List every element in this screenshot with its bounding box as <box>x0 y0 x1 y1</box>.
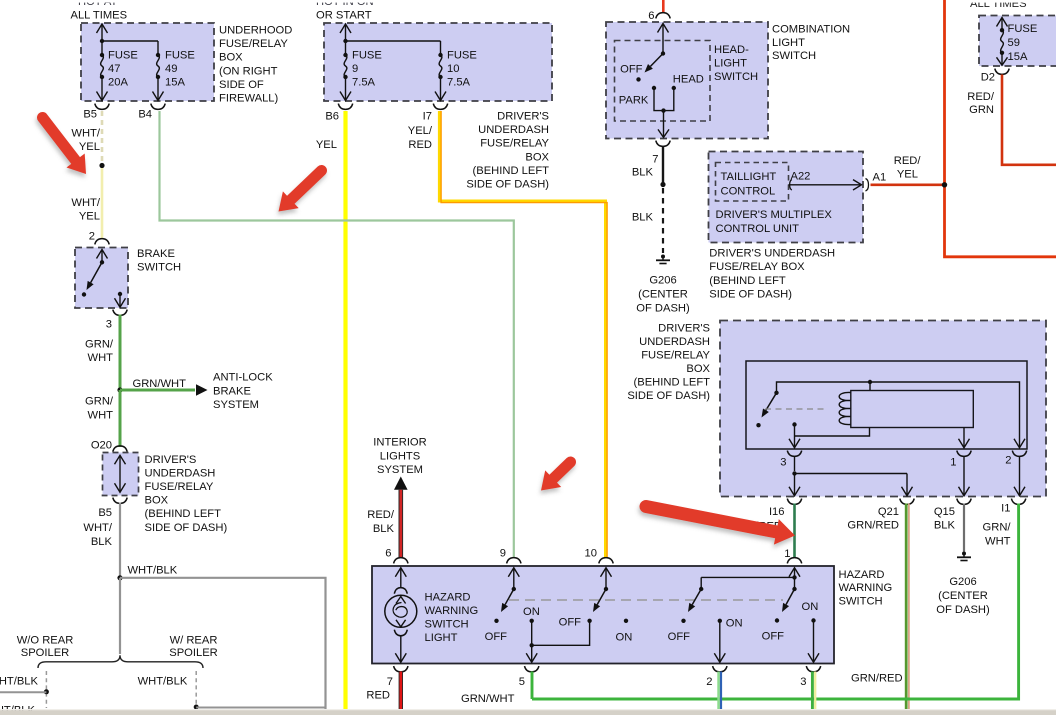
svg-text:UNDERDASH: UNDERDASH <box>639 336 710 348</box>
wire BLK (Q15) <box>963 504 965 552</box>
wire YEL from B6 <box>343 111 347 709</box>
svg-text:Q15: Q15 <box>934 506 955 518</box>
wire pin1 to connector <box>963 457 965 496</box>
pin B5 <box>95 104 109 110</box>
svg-text:LIGHTS: LIGHTS <box>380 450 420 462</box>
arrow interior lights system <box>394 477 408 490</box>
wire RED/BLK <box>398 490 403 558</box>
svg-text:OF DASH): OF DASH) <box>636 303 690 315</box>
hazard switch 1 (pin 9) <box>508 568 519 577</box>
pin B4 <box>151 104 165 110</box>
svg-text:RED/: RED/ <box>367 509 395 521</box>
contact OFF <box>636 77 640 81</box>
svg-text:(CENTER: (CENTER <box>638 288 688 300</box>
svg-text:FUSE/RELAY: FUSE/RELAY <box>145 481 214 493</box>
svg-text:LIGHT: LIGHT <box>714 58 747 70</box>
svg-text:3: 3 <box>106 319 112 331</box>
fuse 47 20A <box>101 41 103 55</box>
pin 2 relay <box>1012 451 1026 457</box>
svg-text:OFF: OFF <box>485 631 508 643</box>
node junction w/ spoiler <box>194 705 199 710</box>
driver multiplex control unit box <box>709 152 864 243</box>
pin 3 hazard <box>806 666 820 672</box>
svg-text:DRIVER'S: DRIVER'S <box>658 322 710 334</box>
svg-text:WHT: WHT <box>985 535 1011 547</box>
wire BLK <box>662 146 664 184</box>
svg-text:LIGHT: LIGHT <box>772 37 805 49</box>
svg-text:A22: A22 <box>791 171 811 183</box>
svg-text:7.5A: 7.5A <box>447 77 471 89</box>
svg-text:1: 1 <box>950 456 956 468</box>
svg-text:SWITCH: SWITCH <box>839 596 883 608</box>
annotation arrow 3 <box>541 462 571 491</box>
wire stub red at top <box>662 0 665 13</box>
wire WHT/YEL solid segment <box>101 168 104 238</box>
svg-text:SPOILER: SPOILER <box>169 647 218 659</box>
connector I16 <box>787 499 801 505</box>
svg-text:CONTROL UNIT: CONTROL UNIT <box>716 223 800 235</box>
svg-text:SIDE OF: SIDE OF <box>219 79 264 91</box>
svg-text:BLK: BLK <box>373 523 395 535</box>
svg-text:BRAKE: BRAKE <box>137 248 175 260</box>
svg-text:BOX: BOX <box>686 363 710 375</box>
svg-text:GRN/RED: GRN/RED <box>851 672 903 684</box>
node junction BLK <box>660 182 665 187</box>
wire WHT/BLK down to brace <box>119 578 121 654</box>
svg-text:YEL: YEL <box>79 211 100 223</box>
svg-text:WHT/: WHT/ <box>71 197 100 209</box>
pin I7 <box>433 104 447 110</box>
wire WHT/YEL dashed segment <box>101 111 104 163</box>
svg-text:2: 2 <box>89 231 95 243</box>
svg-text:DRIVER'S UNDERDASH: DRIVER'S UNDERDASH <box>709 247 835 259</box>
wire GRN/RED (Q21) <box>905 504 908 710</box>
svg-text:(BEHIND LEFT: (BEHIND LEFT <box>709 275 786 287</box>
svg-text:ALL TIMES: ALL TIMES <box>71 9 128 21</box>
svg-text:BLK: BLK <box>632 167 654 179</box>
svg-text:RED/: RED/ <box>894 155 922 167</box>
headlight switch inner box <box>615 41 711 122</box>
svg-text:SPOILER: SPOILER <box>21 647 70 659</box>
svg-text:YEL: YEL <box>79 141 100 153</box>
wire branch to left edge <box>0 691 46 693</box>
svg-text:YEL: YEL <box>316 139 337 151</box>
svg-text:COMBINATION: COMBINATION <box>772 23 850 35</box>
svg-text:B6: B6 <box>325 111 339 123</box>
svg-text:A1: A1 <box>873 172 887 184</box>
svg-text:WHT/: WHT/ <box>71 128 100 140</box>
svg-text:FIREWALL): FIREWALL) <box>219 93 279 105</box>
svg-text:DRIVER'S: DRIVER'S <box>145 454 197 466</box>
driver underdash fuse/relay outer box <box>720 321 1046 497</box>
svg-text:(BEHIND LEFT: (BEHIND LEFT <box>145 508 222 520</box>
svg-text:(ON RIGHT: (ON RIGHT <box>219 65 278 77</box>
svg-text:OR START: OR START <box>316 9 372 21</box>
svg-text:TAILLIGHT: TAILLIGHT <box>721 171 777 183</box>
pin 3 relay <box>787 451 801 457</box>
svg-text:D2: D2 <box>981 72 995 84</box>
connector Q21 <box>900 499 914 505</box>
svg-text:W/ REAR: W/ REAR <box>170 635 218 647</box>
wire A22 to A1 <box>789 184 861 186</box>
svg-text:G206: G206 <box>649 274 676 286</box>
svg-text:B5: B5 <box>83 109 97 121</box>
svg-text:BOX: BOX <box>219 52 243 64</box>
svg-text:9: 9 <box>500 548 506 560</box>
svg-text:LIGHT: LIGHT <box>425 632 458 644</box>
contact PARK <box>652 86 656 90</box>
svg-text:BRAKE: BRAKE <box>213 385 251 397</box>
connector I1 <box>1011 499 1025 505</box>
svg-text:SYSTEM: SYSTEM <box>213 399 259 411</box>
svg-text:BLK: BLK <box>632 212 654 224</box>
svg-text:HEAD-: HEAD- <box>714 44 749 56</box>
svg-text:O20: O20 <box>91 440 112 452</box>
hazard switch 3 <box>700 577 702 589</box>
relay mech link dashed <box>765 408 828 410</box>
svg-text:6: 6 <box>385 548 391 560</box>
svg-text:RED/: RED/ <box>967 91 995 103</box>
svg-text:DRIVER'S MULTIPLEX: DRIVER'S MULTIPLEX <box>716 209 833 221</box>
svg-text:FUSE/RELAY: FUSE/RELAY <box>480 138 549 150</box>
svg-text:UNDERDASH: UNDERDASH <box>145 467 216 479</box>
svg-text:5: 5 <box>519 676 525 688</box>
svg-text:7.5A: 7.5A <box>352 77 376 89</box>
wire ON4 to pin 3 <box>813 621 815 662</box>
svg-text:FUSE/RELAY BOX: FUSE/RELAY BOX <box>709 261 805 273</box>
annotation arrow 2 <box>279 171 322 212</box>
svg-text:GRN/WHT: GRN/WHT <box>133 378 187 390</box>
svg-text:SIDE OF DASH): SIDE OF DASH) <box>709 289 792 301</box>
svg-text:59: 59 <box>1008 37 1020 49</box>
wire RED/YEL main vertical <box>945 0 1056 257</box>
hazard switch 2 (pin 10) <box>601 568 612 577</box>
wire ON1 to pin 5 <box>531 621 533 646</box>
svg-text:RED: RED <box>366 690 390 702</box>
svg-text:OF DASH): OF DASH) <box>936 604 990 616</box>
wire GRN/WHT lower <box>119 390 122 447</box>
svg-text:SYSTEM: SYSTEM <box>377 464 423 476</box>
svg-text:OFF: OFF <box>762 630 785 642</box>
contact ON switch3 <box>718 619 722 623</box>
pin D2 <box>995 69 1009 75</box>
svg-text:WHT/: WHT/ <box>83 522 112 534</box>
svg-text:WARNING: WARNING <box>839 582 893 594</box>
hazard warning switch box <box>372 566 834 664</box>
svg-text:BOX: BOX <box>145 495 169 507</box>
svg-text:SWITCH: SWITCH <box>425 618 469 630</box>
svg-text:10: 10 <box>585 548 597 560</box>
contact ON switch4 <box>811 618 815 622</box>
underdash fuse box (fuse 9/10) <box>324 23 552 101</box>
arrow to anti-lock brake system <box>196 384 208 396</box>
taillight control inner box <box>716 163 789 202</box>
svg-text:3: 3 <box>800 676 806 688</box>
svg-text:9: 9 <box>352 63 358 75</box>
wire fuse9-fuse10 bridge <box>346 40 441 42</box>
top crop cover <box>0 0 1056 3</box>
svg-text:FUSE: FUSE <box>1008 23 1038 35</box>
pin 7 headlight switch <box>656 141 670 147</box>
wire park/head junction <box>654 88 674 111</box>
wire GRN/BLU from pin 2 <box>717 672 720 710</box>
svg-text:DRIVER'S: DRIVER'S <box>497 111 549 123</box>
svg-text:I16: I16 <box>769 506 785 518</box>
svg-text:ANTI-LOCK: ANTI-LOCK <box>213 372 273 384</box>
brake switch contacts <box>97 250 108 259</box>
relay inner solid box <box>746 361 1027 449</box>
svg-text:FUSE/RELAY: FUSE/RELAY <box>219 38 288 50</box>
hazard warning switch light (lamp) <box>395 568 406 577</box>
relay coil <box>839 392 851 424</box>
wire fuse47-fuse49 bridge <box>102 40 158 42</box>
svg-text:47: 47 <box>108 63 120 75</box>
wire fuse47 feed <box>101 26 103 42</box>
node junction WHT/YEL <box>99 163 104 168</box>
wire GRN (I16) to hazard pin 1 <box>793 504 796 559</box>
wire WHT/GRN from B4 <box>160 111 514 558</box>
wire WHT/BLK branch right <box>120 578 326 709</box>
pin B6 <box>338 104 352 110</box>
fuse 9 7.5A <box>345 41 347 55</box>
svg-text:SIDE OF DASH): SIDE OF DASH) <box>466 179 549 191</box>
svg-text:RED: RED <box>408 139 432 151</box>
annotation arrow 4 <box>646 507 795 545</box>
node junction WHT/BLK <box>117 575 122 580</box>
underhood fuse/relay box <box>81 23 214 101</box>
wire RED from pin 7 <box>399 672 403 710</box>
wire GRN/WHT (I1) <box>532 504 1019 700</box>
svg-text:SIDE OF DASH): SIDE OF DASH) <box>627 390 710 402</box>
svg-text:3: 3 <box>780 456 786 468</box>
svg-text:ON: ON <box>726 617 743 629</box>
fuse 59 box <box>979 16 1056 67</box>
svg-text:7: 7 <box>387 676 393 688</box>
svg-text:WHT: WHT <box>88 352 114 364</box>
arrowhead at A1 <box>853 180 862 190</box>
svg-text:(BEHIND LEFT: (BEHIND LEFT <box>634 376 711 388</box>
svg-text:BLK: BLK <box>91 536 113 548</box>
fuse 49 15A <box>156 53 160 57</box>
svg-text:OFF: OFF <box>559 617 582 629</box>
node junction w/o spoiler <box>44 689 49 694</box>
svg-text:2: 2 <box>706 676 712 688</box>
headlight switch wiper <box>658 24 669 33</box>
svg-text:WHT/BLK: WHT/BLK <box>138 675 188 687</box>
wire GRN/WHT upper <box>119 315 122 389</box>
svg-text:ON: ON <box>523 606 540 618</box>
wire BLK dashed <box>662 188 664 253</box>
pin 1 relay <box>957 451 971 457</box>
combination light switch box <box>606 22 768 139</box>
wire fuse9 feed <box>345 26 347 42</box>
svg-text:ON: ON <box>616 632 633 644</box>
svg-text:G206: G206 <box>949 576 976 588</box>
svg-text:PARK: PARK <box>619 95 649 107</box>
pin A1 connector arc <box>866 179 869 192</box>
svg-text:(CENTER: (CENTER <box>938 590 988 602</box>
svg-text:B4: B4 <box>138 109 152 121</box>
svg-text:GRN/: GRN/ <box>85 396 114 408</box>
svg-text:BOX: BOX <box>525 151 549 163</box>
wire branch to WHT/BLK vertical <box>196 707 325 709</box>
svg-text:SWITCH: SWITCH <box>772 50 816 62</box>
fuse 10 7.5A <box>438 53 442 57</box>
svg-text:UNDERHOOD: UNDERHOOD <box>219 25 292 37</box>
svg-text:1: 1 <box>784 548 790 560</box>
svg-text:20A: 20A <box>108 77 128 89</box>
svg-text:CONTROL: CONTROL <box>721 185 776 197</box>
relay switch <box>774 391 778 395</box>
wire WHT/BLK w/o spoiler (dashed) <box>45 671 47 708</box>
svg-text:BLK: BLK <box>934 520 956 532</box>
node junction RED/YEL <box>942 182 947 187</box>
svg-text:YEL: YEL <box>897 169 918 181</box>
svg-text:HEAD: HEAD <box>673 73 704 85</box>
svg-text:2: 2 <box>1005 454 1011 466</box>
svg-text:FUSE: FUSE <box>108 49 138 61</box>
svg-text:FUSE: FUSE <box>352 49 382 61</box>
svg-text:WARNING: WARNING <box>425 605 479 617</box>
svg-text:GRN/RED: GRN/RED <box>847 520 899 532</box>
svg-text:OFF: OFF <box>620 64 643 76</box>
relay pin 1 wire <box>963 428 965 447</box>
svg-text:7: 7 <box>652 153 658 165</box>
svg-text:I1: I1 <box>1001 502 1010 514</box>
svg-text:Q21: Q21 <box>878 506 899 518</box>
contact ON switch2 (open) <box>624 619 628 623</box>
svg-text:GRN/WHT: GRN/WHT <box>461 693 515 705</box>
hazard mech link dashed <box>509 599 783 601</box>
driver underdash fuse/relay box (small) <box>103 453 139 496</box>
svg-text:GRN: GRN <box>969 104 994 116</box>
svg-text:SWITCH: SWITCH <box>137 261 181 273</box>
svg-text:HAZARD: HAZARD <box>425 592 471 604</box>
svg-text:FUSE/RELAY: FUSE/RELAY <box>641 349 710 361</box>
svg-text:6: 6 <box>648 10 654 22</box>
wire YEL/RED from I7 <box>439 111 605 558</box>
pin 3 brake switch <box>113 310 127 316</box>
wire RED/GRN <box>1002 75 1056 165</box>
svg-text:WHT/BLK: WHT/BLK <box>0 675 39 687</box>
contact ON switch1 <box>530 619 534 623</box>
pin 7 hazard <box>394 666 408 672</box>
relay internal wiring <box>777 382 1020 440</box>
wire GRN/RED from pin 3 <box>811 672 814 710</box>
svg-text:SIDE OF DASH): SIDE OF DASH) <box>145 522 228 534</box>
fuse 59 15A <box>997 18 1008 27</box>
svg-text:15A: 15A <box>1008 51 1028 63</box>
pin 2 hazard <box>713 666 727 672</box>
brace rear spoiler options <box>38 655 203 668</box>
brake switch box <box>75 248 128 309</box>
svg-text:10: 10 <box>447 63 459 75</box>
svg-text:(BEHIND LEFT: (BEHIND LEFT <box>473 165 550 177</box>
svg-text:GRN/: GRN/ <box>85 339 114 351</box>
wire pin3 to connectors <box>794 457 796 472</box>
svg-text:INTERIOR: INTERIOR <box>373 437 426 449</box>
svg-text:B5: B5 <box>98 507 112 519</box>
contact HEAD <box>672 86 676 90</box>
svg-text:I7: I7 <box>423 111 432 123</box>
svg-text:FUSE: FUSE <box>165 49 195 61</box>
pin B5 lower <box>113 498 127 504</box>
ground G206 right <box>962 552 966 556</box>
svg-text:HAZARD: HAZARD <box>839 569 885 581</box>
wire GRN/WHT branch to ABS <box>120 389 195 392</box>
wire pin2 to connector <box>1019 457 1021 496</box>
svg-text:49: 49 <box>165 63 177 75</box>
annotation arrow 1 <box>43 118 87 175</box>
svg-text:YEL/: YEL/ <box>408 125 433 137</box>
svg-text:ON: ON <box>802 601 819 613</box>
svg-text:SWITCH: SWITCH <box>714 71 758 83</box>
svg-text:GRN/: GRN/ <box>983 521 1012 533</box>
wire GRN/WHT from pin 5 <box>531 672 534 700</box>
connector Q15 <box>957 499 971 505</box>
svg-text:UNDERDASH: UNDERDASH <box>478 124 549 136</box>
wire ON1 to OFF2 <box>532 621 590 646</box>
bottom edge band <box>0 709 1056 710</box>
svg-text:WHT: WHT <box>88 409 114 421</box>
svg-text:15A: 15A <box>165 77 185 89</box>
wire RED/YEL from A1 <box>871 184 945 187</box>
wire WHT/BLK <box>119 503 121 577</box>
ground G206 left <box>661 255 665 259</box>
hazard switch 4 (pin 1) <box>789 568 800 577</box>
svg-text:FUSE: FUSE <box>447 49 477 61</box>
svg-text:WHT/BLK: WHT/BLK <box>128 565 178 577</box>
relay coil return wire <box>795 428 870 437</box>
pin 5 hazard <box>525 666 539 672</box>
wire ON3 to pin 2 <box>719 621 721 661</box>
svg-text:W/O REAR: W/O REAR <box>17 635 74 647</box>
svg-text:OFF: OFF <box>668 631 691 643</box>
node junction GRN/WHT <box>117 387 122 392</box>
wire through small box <box>119 457 121 492</box>
relay body <box>851 391 974 428</box>
wire WHT/BLK w/ spoiler (dashed) <box>195 671 197 707</box>
